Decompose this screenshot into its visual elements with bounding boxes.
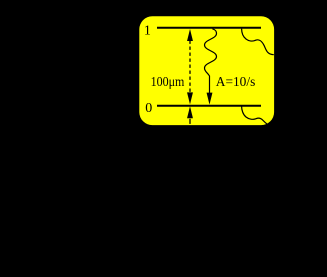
- wavy spontaneous-emission photon line: [205, 29, 217, 94]
- dashed stub below level 0: [189, 119, 191, 124]
- level 1 line: [157, 27, 261, 29]
- svg-text:1: 1: [144, 24, 151, 39]
- level 0 line: [157, 105, 261, 107]
- yellow card background: [139, 16, 274, 125]
- bottom-right squiggle from level 0 to card corner: [242, 106, 269, 125]
- upward arrowhead below level 0: [187, 106, 193, 118]
- dashed arrow lower arrowhead: [187, 92, 193, 104]
- top-right squiggle from level 1 to card edge: [242, 29, 274, 55]
- wavy line arrowhead: [207, 93, 213, 105]
- svg-text:100μm: 100μm: [151, 74, 185, 89]
- svg-text:0: 0: [145, 101, 152, 116]
- dashed arrow upper arrowhead: [187, 29, 193, 41]
- svg-text:A=10/s: A=10/s: [216, 74, 256, 89]
- dashed separation arrow shaft: [189, 41, 191, 93]
